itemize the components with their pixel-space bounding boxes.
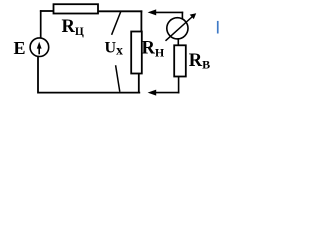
wire: galvanometer to RВ [177,38,179,46]
svg-text:Uх: Uх [105,39,124,57]
wire: top-left horizontal to RЦ [40,10,54,12]
resistor RВ box [174,45,186,76]
galvanometer circle [167,18,188,39]
galvanometer needle arrow [166,13,197,41]
wire: RН bottom lead [138,74,140,94]
open-gap slash (top) [112,12,121,35]
svg-text:RВ: RВ [189,51,210,72]
svg-text:RЦ: RЦ [62,17,84,38]
wire: arrow corner down to galvanometer [181,12,183,19]
top probe arrow [148,9,184,15]
text cursor [217,21,219,34]
open-gap slash (bottom) [116,65,120,92]
wire: source top to top-left corner [40,10,42,38]
voltage source E circle [30,38,49,57]
resistor RЦ box [54,4,99,13]
svg-text:E: E [14,38,26,58]
svg-text:RН: RН [142,39,165,60]
bottom wire [38,56,140,93]
voltage source E arrow [37,42,42,55]
wire: corner down to RН top [140,10,142,31]
wire: RВ bottom lead [178,77,180,94]
resistor RН box [131,32,142,74]
bottom probe arrow [148,90,180,96]
wire: RЦ to top-right corner [98,10,142,12]
